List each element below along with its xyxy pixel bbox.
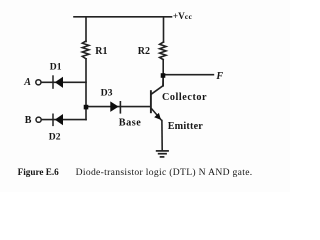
svg-text:Figure E.6: Figure E.6 [18,167,60,177]
svg-text:R1: R1 [95,46,107,57]
ground [156,151,169,157]
svg-text:Base: Base [119,117,142,128]
wire input B [41,119,86,121]
diode D3 [110,101,120,114]
svg-text:D2: D2 [49,131,61,142]
resistor R2 [160,42,166,60]
wire R2 branch lower [162,60,164,86]
svg-text:B: B [25,115,32,126]
wire collector lead [151,76,163,95]
wire input A [41,81,86,83]
svg-text:D3: D3 [101,87,113,98]
wire emitter to ground [161,121,163,150]
diode D1 [53,75,63,89]
wire output F [163,74,213,76]
diode D2 [53,114,63,127]
svg-text:A: A [23,77,31,88]
svg-text:Emitter: Emitter [168,121,204,132]
wire R1 branch lower [85,59,87,120]
wire top rail [74,16,172,18]
terminal B circle [36,117,41,122]
wire base line (node to transistor) [86,106,150,108]
svg-text:F: F [215,71,223,82]
terminal A circle [36,80,41,85]
wire R2 branch upper [163,17,165,42]
svg-text:Diode-transistor logic (DTL) N: Diode-transistor logic (DTL) N AND gate. [76,167,253,178]
node junction dot collector/F [161,73,166,78]
resistor R1 [82,41,89,59]
svg-text:R2: R2 [138,46,150,57]
svg-text:D1: D1 [50,61,62,72]
svg-text:Collector: Collector [162,92,207,103]
wire R1 branch upper [85,17,87,42]
svg-text:+Vcc: +Vcc [173,11,193,21]
transistor Q1 [151,90,162,121]
node junction dot base [84,105,89,110]
